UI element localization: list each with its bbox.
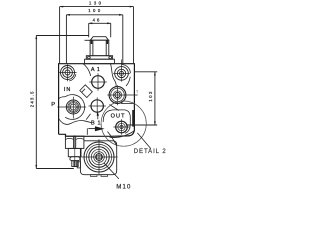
svg-text:OUT: OUT	[111, 114, 126, 120]
svg-text:130: 130	[89, 0, 102, 5]
bolt top-left	[59, 64, 76, 81]
relief valve cylinder	[68, 148, 81, 156]
svg-text:243.5: 243.5	[29, 91, 34, 107]
B1 leader arrow	[97, 112, 99, 119]
cap hidden edge line	[85, 39, 91, 41]
thick edge bar right	[132, 110, 134, 127]
flow arrow at B1	[88, 126, 104, 131]
dimension 100 line	[66, 14, 123, 16]
M10 port concentric circles	[82, 139, 118, 175]
casting diamond between ports	[80, 85, 93, 98]
relief valve centerline	[74, 135, 76, 167]
svg-text:IN: IN	[64, 87, 70, 93]
OUT boss bottom arc	[110, 131, 135, 138]
OUT boss outline	[103, 110, 130, 133]
dimension 46 line	[88, 22, 111, 24]
port A1	[89, 73, 107, 91]
dimension 46 extension lines	[88, 23, 90, 37]
boss to flange curve	[108, 132, 117, 147]
svg-text:B1: B1	[91, 120, 101, 126]
casting web top-left to A1	[83, 64, 91, 76]
svg-text:DETAIL 2: DETAIL 2	[134, 149, 167, 155]
svg-text:M10: M10	[116, 185, 131, 191]
cap tube	[90, 40, 109, 56]
svg-text:100: 100	[88, 8, 101, 13]
port B1	[89, 97, 106, 114]
dimension 130 line	[59, 6, 133, 8]
M10 boss flange	[77, 141, 117, 177]
dimension 100 extension lines	[65, 15, 67, 64]
casting step line right	[121, 103, 134, 105]
port OUT	[113, 119, 129, 134]
cap top nut trapezoid	[90, 37, 108, 41]
relief valve small hex	[70, 157, 80, 161]
relief valve hex nut	[65, 136, 84, 148]
relief valve stud	[72, 161, 78, 167]
dimension 103 line	[154, 72, 156, 126]
svg-text:T: T	[136, 89, 139, 94]
svg-text:A1: A1	[91, 67, 100, 73]
svg-text:46: 46	[93, 18, 100, 23]
casting line B1 lower-left	[86, 114, 90, 120]
port IN	[57, 95, 91, 135]
svg-text:103: 103	[148, 91, 153, 102]
dimension 243.5 extension lines	[36, 35, 88, 37]
detail leader line	[137, 133, 150, 149]
svg-text:P: P	[51, 102, 55, 108]
dimension 243.5 line	[35, 35, 37, 169]
M10 leader line	[104, 163, 119, 179]
dimension 103 extension lines	[134, 71, 157, 73]
valve body outline	[59, 64, 135, 137]
detail boundary circle	[101, 101, 146, 146]
cap flange	[86, 56, 112, 60]
dimension 130 extension lines	[59, 7, 61, 64]
casting diagonal below T port	[110, 105, 120, 111]
cap pedestal	[85, 59, 115, 64]
bolt top-right	[111, 60, 131, 87]
port T right-middle	[107, 85, 137, 105]
